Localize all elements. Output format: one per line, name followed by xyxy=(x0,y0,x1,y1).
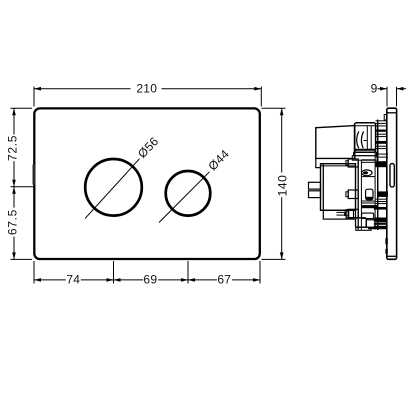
slab bottom-left clip arc xyxy=(385,238,387,244)
barrel mid tick xyxy=(363,140,366,142)
bottom screw washer xyxy=(344,212,346,217)
svg-text:69: 69 xyxy=(143,273,157,287)
bottom right dark band xyxy=(374,218,387,222)
dimension 9 arrows xyxy=(380,87,387,91)
panel dark band low xyxy=(361,205,377,208)
mechanism bottom edge xyxy=(368,227,387,229)
svg-text:140: 140 xyxy=(275,175,289,197)
left box step xyxy=(316,158,321,167)
collar block 2 xyxy=(352,156,377,161)
screw boss 3 xyxy=(348,209,358,217)
mech top cap lines xyxy=(376,120,387,122)
cylinder inner verticals xyxy=(366,126,368,150)
bottom right lines xyxy=(374,223,387,225)
cylinder housing xyxy=(355,123,376,152)
bottom dimension arrows xyxy=(34,278,41,282)
svg-text:67: 67 xyxy=(217,273,231,287)
strip dark band 2 xyxy=(376,141,387,144)
bracket strip vertical xyxy=(377,120,379,230)
extension top xyxy=(11,107,33,109)
dimension 140 line xyxy=(281,108,283,172)
front plate outline xyxy=(34,108,259,259)
bottom dimension line segments xyxy=(34,279,66,281)
bottom rounded block xyxy=(362,213,374,218)
extension bottom xyxy=(11,258,33,260)
slab top-left lug xyxy=(384,115,387,121)
collar block xyxy=(354,152,377,156)
slab bottom division xyxy=(387,255,397,257)
strip dark band 3 xyxy=(378,191,388,197)
dimension 140 extension lines xyxy=(262,107,286,109)
main left box xyxy=(321,164,356,211)
svg-text:72.5: 72.5 xyxy=(5,135,19,161)
inner panel top lines xyxy=(361,159,375,161)
dimension 210 arrows xyxy=(34,87,41,91)
strip dark lug xyxy=(376,161,387,167)
bottom dimension extension lines xyxy=(33,261,35,284)
main box inner vertical xyxy=(322,164,324,211)
slab slot capsule xyxy=(390,164,394,188)
bottom block B xyxy=(366,220,375,227)
cylinder top inner line xyxy=(355,125,376,127)
bottom screw head xyxy=(346,210,353,218)
cylinder bottom thick line xyxy=(355,149,376,151)
dimension 210 extension lines xyxy=(33,87,35,107)
side clip tab on plate left edge xyxy=(33,165,36,185)
strip dark band 5 xyxy=(376,218,387,223)
button circle D56 xyxy=(85,159,142,216)
svg-text:67.5: 67.5 xyxy=(5,209,19,235)
extension middle xyxy=(11,186,34,188)
svg-text:210: 210 xyxy=(136,82,157,96)
svg-text:9: 9 xyxy=(371,82,378,96)
left tab 2 xyxy=(309,191,321,198)
rounded-rect detail xyxy=(366,189,373,200)
dimension 9 line left xyxy=(378,88,388,90)
central column verticals xyxy=(357,160,359,229)
strip dark band 4 xyxy=(374,207,387,210)
bottom block C xyxy=(356,227,371,230)
screw boss 2 xyxy=(348,190,358,199)
bottom block A xyxy=(356,218,367,227)
dimension 9 line right xyxy=(397,88,407,90)
dimension 140 arrows xyxy=(280,108,284,115)
button circle D44 xyxy=(166,171,211,216)
main box top inner line xyxy=(321,165,356,167)
inner panel line below ellipse xyxy=(361,176,375,178)
leader line D56 xyxy=(85,159,140,219)
barrel arc 1 xyxy=(357,131,359,148)
ellipse detail xyxy=(362,170,372,176)
strip dark band 1 xyxy=(376,130,387,132)
arrows 72.5/67.5 xyxy=(12,108,16,115)
svg-text:74: 74 xyxy=(66,273,80,287)
left tab 1 xyxy=(309,182,321,189)
bottom screw shaft xyxy=(337,211,345,213)
slab top division xyxy=(387,112,397,114)
barrel arc 2 xyxy=(361,131,363,148)
left top box xyxy=(316,126,355,159)
side plate slab xyxy=(387,108,397,259)
leader line D44 xyxy=(159,172,210,223)
dimension 210 line xyxy=(34,88,131,90)
main box bottom band xyxy=(323,210,355,219)
screw boss 1 xyxy=(348,159,358,167)
dimension 9 extension lines xyxy=(386,87,388,107)
dimension 72.5/67.5 line xyxy=(13,108,15,134)
